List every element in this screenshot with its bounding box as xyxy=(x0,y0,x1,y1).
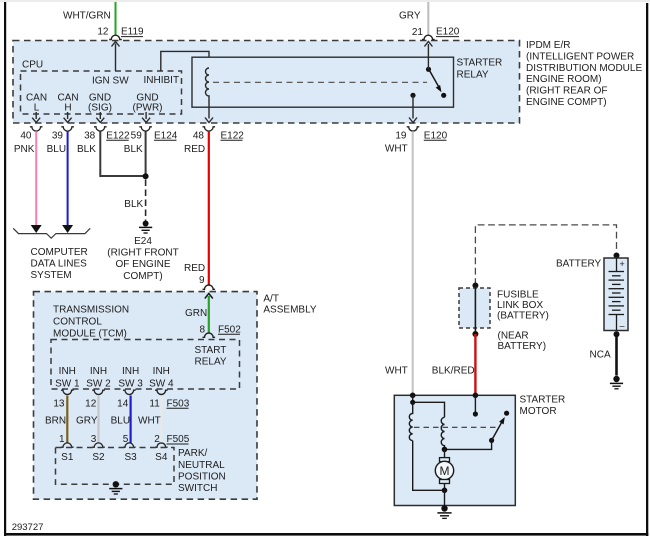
svg-text:38: 38 xyxy=(84,130,96,141)
svg-text:WHT/GRN: WHT/GRN xyxy=(63,11,111,22)
connector cup pin 5 xyxy=(123,443,136,447)
svg-text:START: START xyxy=(195,345,227,356)
wire BLK/RED xyxy=(432,334,476,395)
ground E24 xyxy=(139,221,152,234)
pin 3 label xyxy=(91,434,97,445)
connector cup pin 59 xyxy=(139,127,152,131)
connector F502 pin 8 xyxy=(199,324,241,337)
svg-text:MODULE (TCM): MODULE (TCM) xyxy=(53,328,127,339)
wire BLK pin 59 xyxy=(124,131,146,176)
svg-text:S4: S4 xyxy=(155,452,168,463)
svg-text:CPU: CPU xyxy=(22,60,43,71)
svg-text:SW 1: SW 1 xyxy=(55,378,80,389)
wire INHIBIT to relay coil xyxy=(161,51,209,71)
svg-text:M: M xyxy=(440,464,450,478)
svg-text:BLK/RED: BLK/RED xyxy=(432,365,475,376)
svg-text:POSITION: POSITION xyxy=(178,471,226,482)
wire BLU xyxy=(47,131,74,233)
CAN L pin label xyxy=(26,92,47,113)
svg-text:+: + xyxy=(620,259,625,269)
S1 label xyxy=(61,452,74,463)
pin 38 label xyxy=(84,130,96,141)
wire RED pin 48 xyxy=(184,131,209,284)
junction dot motor bottom xyxy=(442,488,448,494)
svg-text:E120: E120 xyxy=(436,27,460,38)
svg-text:14: 14 xyxy=(117,398,129,409)
pin 12 label xyxy=(85,398,97,409)
CAN H output arrow xyxy=(64,112,72,122)
svg-text:RED: RED xyxy=(184,144,205,155)
svg-text:LINK BOX: LINK BOX xyxy=(497,300,543,311)
svg-text:RELAY: RELAY xyxy=(195,356,227,367)
svg-text:SW 4: SW 4 xyxy=(149,378,174,389)
WHT label pin 19 xyxy=(385,144,408,155)
connector E122 label (pin 48) xyxy=(221,130,245,141)
ground battery xyxy=(610,376,623,389)
CPU inner dashed box xyxy=(21,71,182,114)
TCM inner dashed box xyxy=(51,340,240,390)
pin 48 label xyxy=(193,130,205,141)
dashed battery supply wire xyxy=(475,225,616,285)
svg-text:COMPT): COMPT) xyxy=(123,271,162,282)
wire BLK pin 38 xyxy=(77,131,146,176)
svg-text:E124: E124 xyxy=(154,130,178,141)
wire IGN SW to pin 12 xyxy=(112,42,120,72)
svg-text:59: 59 xyxy=(131,130,143,141)
svg-text:F505: F505 xyxy=(167,434,190,445)
svg-text:1: 1 xyxy=(59,434,65,445)
svg-text:(SIG): (SIG) xyxy=(88,103,112,114)
wire WHT/GRN xyxy=(63,2,116,35)
svg-text:DATA LINES: DATA LINES xyxy=(31,259,88,270)
A/T ASSEMBLY label xyxy=(263,293,316,315)
connector cup pin 19 xyxy=(407,127,420,131)
svg-text:WHT: WHT xyxy=(385,144,408,155)
svg-text:13: 13 xyxy=(53,398,65,409)
fusible link xyxy=(474,286,476,335)
pin 19 label xyxy=(395,130,407,141)
svg-text:MOTOR: MOTOR xyxy=(520,406,557,417)
svg-text:F502: F502 xyxy=(218,324,241,335)
battery negative wire xyxy=(590,334,617,375)
svg-text:E122: E122 xyxy=(221,130,245,141)
svg-text:E120: E120 xyxy=(424,130,448,141)
wire BRN xyxy=(45,396,67,444)
GND (SIG) pin label xyxy=(88,92,112,113)
pin 1 label xyxy=(59,434,65,445)
svg-text:48: 48 xyxy=(193,130,205,141)
svg-text:IGN SW: IGN SW xyxy=(92,76,129,87)
FUSIBLE LINK BOX label xyxy=(497,290,549,322)
svg-text:NEUTRAL: NEUTRAL xyxy=(178,460,225,471)
svg-text:COMPUTER: COMPUTER xyxy=(31,247,88,258)
svg-text:SW 2: SW 2 xyxy=(86,378,111,389)
svg-text:40: 40 xyxy=(20,130,32,141)
svg-text:CONTROL: CONTROL xyxy=(53,316,102,327)
starter motor box xyxy=(394,395,515,505)
svg-text:STARTER: STARTER xyxy=(457,58,503,69)
svg-text:FUSIBLE: FUSIBLE xyxy=(497,290,539,301)
svg-text:GRY: GRY xyxy=(399,11,421,22)
svg-text:GRN: GRN xyxy=(185,308,207,319)
COMPUTER DATA LINES SYSTEM label xyxy=(31,247,88,281)
connector cup pin 2 xyxy=(155,443,168,447)
INHIBIT label xyxy=(144,75,180,86)
pin 13 label xyxy=(53,398,65,409)
svg-text:WHT: WHT xyxy=(385,365,408,376)
battery xyxy=(604,258,628,331)
svg-text:BATTERY: BATTERY xyxy=(556,258,602,269)
park/neutral position switch dashed box xyxy=(56,448,175,485)
junction dot fusible top xyxy=(472,283,478,289)
GND (PWR) pin label xyxy=(133,92,163,113)
svg-text:PNK: PNK xyxy=(14,144,35,155)
A/T ASSEMBLY dashed box xyxy=(34,292,258,500)
svg-text:STARTER: STARTER xyxy=(520,395,566,406)
svg-text:OF ENGINE: OF ENGINE xyxy=(115,259,170,270)
svg-text:F503: F503 xyxy=(167,398,190,409)
TCM label xyxy=(53,304,129,339)
svg-text:(BATTERY): (BATTERY) xyxy=(497,311,549,322)
svg-text:BRN: BRN xyxy=(45,416,66,427)
wire PNK xyxy=(14,131,42,233)
starter switch xyxy=(489,411,509,443)
svg-text:BLU: BLU xyxy=(111,416,130,427)
svg-text:DISTRIBUTION MODULE: DISTRIBUTION MODULE xyxy=(526,63,642,74)
relay mechanical link (dashed) xyxy=(213,81,427,83)
CPU label xyxy=(22,60,43,71)
starter relay box xyxy=(192,57,454,107)
svg-text:L: L xyxy=(34,103,40,114)
solenoid feed wires xyxy=(410,395,444,417)
svg-text:INH: INH xyxy=(153,366,170,377)
connector cup pin 3 xyxy=(92,443,105,447)
pin 14 label xyxy=(117,398,129,409)
pin 11 label xyxy=(149,398,160,409)
svg-text:NCA: NCA xyxy=(590,350,611,361)
ground starter motor xyxy=(437,505,451,518)
S4 label xyxy=(155,452,168,463)
CAN H pin label xyxy=(57,92,78,113)
svg-text:INHIBIT: INHIBIT xyxy=(144,75,180,86)
S3 label xyxy=(124,452,137,463)
svg-text:TRANSMISSION: TRANSMISSION xyxy=(53,304,129,315)
connector cup pin 38 xyxy=(94,127,107,131)
brace computer data lines xyxy=(13,228,90,238)
INH SW 1 label xyxy=(55,366,80,390)
connector E124 label xyxy=(154,130,178,141)
solenoid coil left xyxy=(409,402,412,440)
svg-text:INH: INH xyxy=(90,366,107,377)
relay coil xyxy=(206,68,210,107)
fusible link box xyxy=(459,288,490,328)
INH SW 3 label xyxy=(118,366,143,390)
pin 40 label xyxy=(20,130,32,141)
svg-text:SYSTEM: SYSTEM xyxy=(31,270,72,281)
wire GRY (TCM) xyxy=(76,396,99,444)
svg-text:BLK: BLK xyxy=(77,144,96,155)
svg-text:BLU: BLU xyxy=(47,144,66,155)
svg-text:ASSEMBLY: ASSEMBLY xyxy=(263,305,316,316)
connector F502 pin 9 xyxy=(199,275,215,290)
switch return wire xyxy=(445,440,492,449)
svg-text:BATTERY): BATTERY) xyxy=(498,341,547,352)
svg-text:(PWR): (PWR) xyxy=(133,103,163,114)
connector E120 pin 21 xyxy=(412,27,460,40)
CAN L output arrow xyxy=(32,112,40,122)
svg-text:9: 9 xyxy=(199,275,205,286)
START RELAY label xyxy=(195,345,227,368)
svg-text:8: 8 xyxy=(199,324,205,335)
connector cup pin 11 xyxy=(155,390,168,394)
STARTER RELAY label xyxy=(457,58,503,81)
pin 5 label xyxy=(123,434,129,445)
starter ground wire xyxy=(444,490,446,505)
svg-text:BLK: BLK xyxy=(124,199,143,210)
svg-text:S1: S1 xyxy=(61,452,74,463)
dashed BLK wire to ground xyxy=(124,180,145,221)
IPDM E/R outer dashed box xyxy=(13,41,520,124)
svg-text:12: 12 xyxy=(85,398,97,409)
connector E119 pin 12 xyxy=(97,27,144,40)
svg-text:BLK: BLK xyxy=(124,144,143,155)
svg-text:E122: E122 xyxy=(106,130,130,141)
RED label near connector 9 xyxy=(184,263,205,274)
junction dot fusible bottom xyxy=(472,331,478,337)
GND (PWR) output arrow xyxy=(142,112,150,122)
svg-text:293727: 293727 xyxy=(12,522,44,533)
left coil return wire xyxy=(413,441,445,491)
pin 39 label xyxy=(52,130,64,141)
svg-text:11: 11 xyxy=(149,398,160,409)
svg-text:19: 19 xyxy=(395,130,407,141)
relay switch xyxy=(410,67,446,98)
svg-text:INH: INH xyxy=(59,366,76,377)
starter mechanical link (dashed) xyxy=(414,426,496,428)
svg-text:RED: RED xyxy=(184,263,205,274)
svg-text:S3: S3 xyxy=(124,452,137,463)
connector cup pin 12 xyxy=(92,390,105,394)
INH SW 2 label xyxy=(86,366,111,390)
connector cup pin 14 xyxy=(123,390,136,394)
svg-text:PARK/: PARK/ xyxy=(178,448,207,459)
wire WHT (starter) xyxy=(385,131,413,395)
NEAR BATTERY label xyxy=(498,331,547,352)
wire BLK/RED to contact xyxy=(473,395,478,416)
wire GRY xyxy=(399,2,428,35)
svg-text:INH: INH xyxy=(122,366,139,377)
junction dot battery top xyxy=(614,253,620,259)
diagram number 293727 xyxy=(12,522,44,533)
connector F503 label xyxy=(167,398,190,409)
junction dot BLK/RED entry xyxy=(473,393,479,399)
GND (SIG) output arrow xyxy=(96,112,104,122)
connector cup pin 13 xyxy=(61,390,74,394)
wire WHT (TCM) xyxy=(138,396,161,444)
wire relay to pin 21 xyxy=(424,42,432,70)
svg-text:(RIGHT FRONT: (RIGHT FRONT xyxy=(107,248,178,259)
junction dot BLK xyxy=(143,173,149,179)
svg-text:RELAY: RELAY xyxy=(457,70,489,81)
wire relay coil to pin 48 xyxy=(205,107,213,122)
svg-text:H: H xyxy=(64,103,71,114)
STARTER MOTOR label xyxy=(520,395,566,417)
connector cup pin 48 xyxy=(203,127,216,131)
svg-text:21: 21 xyxy=(412,27,424,38)
svg-text:E24: E24 xyxy=(134,236,152,247)
svg-text:(NEAR: (NEAR xyxy=(498,331,529,342)
connector cup pin 40 xyxy=(30,127,43,131)
solenoid coil right xyxy=(441,417,444,449)
E24 labels xyxy=(107,236,178,282)
svg-text:GRY: GRY xyxy=(76,416,98,427)
PARK/NEUTRAL POSITION SWITCH label xyxy=(178,448,226,494)
BATTERY label xyxy=(556,258,602,269)
connector cup pin 1 xyxy=(61,443,74,447)
wire GRN xyxy=(185,294,213,333)
svg-text:A/T: A/T xyxy=(263,293,279,304)
IPDM E/R label xyxy=(526,40,642,108)
svg-text:S2: S2 xyxy=(92,452,105,463)
svg-text:WHT: WHT xyxy=(138,416,161,427)
svg-text:E119: E119 xyxy=(121,27,144,38)
pin 59 label xyxy=(131,130,143,141)
connector E122 label xyxy=(106,130,130,141)
wire relay to pin 19 xyxy=(409,95,417,122)
connector E120 label (pin 19) xyxy=(424,130,448,141)
connector cup pin 39 xyxy=(61,127,74,131)
svg-text:IPDM E/R: IPDM E/R xyxy=(526,40,570,51)
INH SW 4 label xyxy=(149,366,174,390)
junction dot WHT entry xyxy=(410,393,416,399)
IGN SW label xyxy=(92,76,129,87)
svg-text:ENGINE ROOM): ENGINE ROOM) xyxy=(526,74,602,85)
junction dot battery bottom xyxy=(614,331,620,337)
svg-text:(RIGHT REAR OF: (RIGHT REAR OF xyxy=(526,86,607,97)
svg-text:SWITCH: SWITCH xyxy=(178,483,217,494)
svg-text:39: 39 xyxy=(52,130,64,141)
wire BLU (TCM) xyxy=(111,396,131,444)
junction dot coil bottom xyxy=(442,447,448,453)
motor M xyxy=(435,449,453,490)
svg-text:–: – xyxy=(620,321,625,331)
connector F505 label xyxy=(167,434,190,445)
pin 2 label xyxy=(154,434,160,445)
S2 label xyxy=(92,452,105,463)
ground park/neutral switch xyxy=(109,481,122,494)
svg-text:12: 12 xyxy=(97,27,109,38)
svg-text:SW 3: SW 3 xyxy=(118,378,143,389)
svg-text:ENGINE COMPT): ENGINE COMPT) xyxy=(526,97,607,108)
svg-text:(INTELLIGENT POWER: (INTELLIGENT POWER xyxy=(526,51,634,62)
